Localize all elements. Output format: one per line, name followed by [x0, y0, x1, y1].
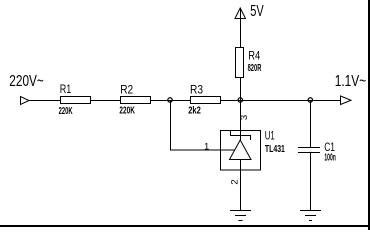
svg-text:2: 2	[230, 179, 241, 184]
svg-text:2k2: 2k2	[188, 105, 201, 116]
svg-text:R4: R4	[248, 49, 260, 63]
svg-text:1.1V~: 1.1V~	[335, 73, 367, 90]
svg-text:220V~: 220V~	[9, 73, 44, 90]
svg-text:TL431: TL431	[265, 144, 285, 155]
svg-text:3: 3	[239, 115, 250, 120]
svg-text:U1: U1	[265, 128, 275, 142]
svg-text:100n: 100n	[324, 152, 335, 163]
svg-text:5V: 5V	[250, 3, 264, 20]
svg-text:1: 1	[204, 142, 209, 153]
svg-text:220K: 220K	[59, 106, 73, 117]
svg-text:R2: R2	[120, 82, 133, 96]
svg-text:820R: 820R	[248, 63, 262, 74]
svg-text:220K: 220K	[119, 106, 135, 117]
svg-text:R1: R1	[60, 82, 72, 96]
svg-text:R3: R3	[190, 82, 203, 96]
